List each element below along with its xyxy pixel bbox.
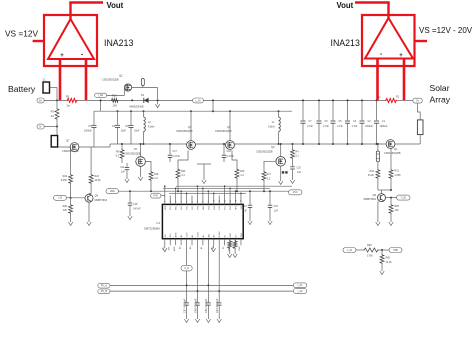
svg-text:I_B: I_B xyxy=(58,197,62,200)
svg-text:2w: 2w xyxy=(51,114,54,118)
svg-text:6.8uH: 6.8uH xyxy=(148,126,155,129)
svg-text:I_B2: I_B2 xyxy=(98,94,104,97)
svg-text:10uF: 10uF xyxy=(134,130,140,133)
svg-text:4.7uF: 4.7uF xyxy=(337,126,343,128)
svg-text:Array: Array xyxy=(430,95,451,105)
svg-text:MMSZ5245B: MMSZ5245B xyxy=(130,106,144,109)
svg-text:1000uF: 1000uF xyxy=(365,126,373,128)
svg-text:C44 4700pF: C44 4700pF xyxy=(215,298,219,313)
svg-text:R21: R21 xyxy=(395,169,400,172)
svg-text:Battery: Battery xyxy=(8,84,36,94)
svg-text:+: + xyxy=(399,53,403,59)
svg-text:AVIN: AVIN xyxy=(175,232,178,237)
svg-text:L_IN: L_IN xyxy=(347,249,352,252)
svg-text:4.7uF: 4.7uF xyxy=(323,126,329,128)
svg-text:R26: R26 xyxy=(63,205,68,208)
svg-text:Q1: Q1 xyxy=(394,147,398,151)
svg-text:+: + xyxy=(60,53,64,59)
svg-text:VS =12V - 20V: VS =12V - 20V xyxy=(419,26,473,35)
svg-text:INA213: INA213 xyxy=(104,38,133,48)
svg-text:4.7uF: 4.7uF xyxy=(307,126,313,128)
svg-text:C48 4700pF: C48 4700pF xyxy=(193,298,197,313)
svg-text:33.2K: 33.2K xyxy=(95,179,102,182)
svg-text:B-: B- xyxy=(39,125,42,128)
svg-text:I_A2: I_A2 xyxy=(297,290,303,293)
svg-text:U5: U5 xyxy=(134,147,138,151)
svg-text:10K: 10K xyxy=(395,209,400,212)
svg-text:Q2: Q2 xyxy=(227,125,231,129)
svg-text:R66: R66 xyxy=(367,244,372,247)
svg-text:0.47uF: 0.47uF xyxy=(133,207,141,210)
svg-text:C16: C16 xyxy=(227,150,232,153)
svg-text:2m: 2m xyxy=(377,96,380,99)
svg-text:SM72295MA: SM72295MA xyxy=(144,227,160,231)
svg-text:Vout: Vout xyxy=(107,1,124,10)
svg-text:IOUT: IOUT xyxy=(187,232,189,238)
svg-text:AVIN: AVIN xyxy=(173,246,176,251)
svg-text:C10: C10 xyxy=(297,167,302,170)
svg-text:1000uF: 1000uF xyxy=(380,126,388,128)
svg-text:R17: R17 xyxy=(267,173,272,176)
svg-text:R3: R3 xyxy=(51,110,55,114)
svg-text:PV_A: PV_A xyxy=(101,284,108,287)
svg-text:2.05K: 2.05K xyxy=(395,174,402,177)
svg-text:PV_B: PV_B xyxy=(101,290,108,293)
svg-text:5VB: 5VB xyxy=(393,249,398,252)
svg-text:R23: R23 xyxy=(370,170,375,173)
svg-text:L_IN: L_IN xyxy=(195,99,200,102)
svg-text:CSD19532Q5B: CSD19532Q5B xyxy=(124,153,141,156)
svg-text:C47 4700pF: C47 4700pF xyxy=(182,298,186,313)
svg-text:VS =12V: VS =12V xyxy=(5,29,38,39)
svg-text:CSD18502Q5B: CSD18502Q5B xyxy=(102,79,119,82)
svg-text:1uF: 1uF xyxy=(274,209,279,212)
svg-text:1000uF: 1000uF xyxy=(84,130,93,133)
svg-text:INA213: INA213 xyxy=(331,38,360,48)
svg-text:R24: R24 xyxy=(95,175,100,178)
svg-text:1uF: 1uF xyxy=(121,170,126,173)
svg-text:CSD18532Q5B: CSD18532Q5B xyxy=(176,130,193,133)
svg-text:Solar: Solar xyxy=(430,83,450,93)
svg-text:R65: R65 xyxy=(386,256,391,259)
svg-text:C15: C15 xyxy=(274,205,279,208)
svg-text:0.47uF: 0.47uF xyxy=(227,155,235,158)
svg-text:13.3K: 13.3K xyxy=(386,261,393,264)
svg-text:2m: 2m xyxy=(67,105,70,108)
svg-text:R22: R22 xyxy=(63,175,68,178)
svg-text:2.05K: 2.05K xyxy=(61,179,68,182)
svg-text:33.2K: 33.2K xyxy=(368,174,375,177)
svg-text:Q7: Q7 xyxy=(66,139,70,143)
svg-text:R25: R25 xyxy=(395,205,400,208)
svg-text:VDD: VDD xyxy=(110,190,115,193)
svg-text:VOUT: VOUT xyxy=(197,231,199,237)
svg-text:1uF: 1uF xyxy=(243,209,248,212)
svg-text:10K: 10K xyxy=(113,104,118,107)
svg-text:VCC: VCC xyxy=(293,191,298,194)
svg-text:CSD18532Q5B: CSD18532Q5B xyxy=(215,130,232,133)
svg-text:CSD18502Q5B: CSD18502Q5B xyxy=(384,152,401,155)
svg-text:R16: R16 xyxy=(240,170,245,173)
svg-text:Q2: Q2 xyxy=(119,74,123,78)
svg-text:6.8uH: 6.8uH xyxy=(268,126,275,129)
svg-text:10K: 10K xyxy=(63,209,68,212)
svg-text:PV5: PV5 xyxy=(153,194,158,197)
svg-text:1uF: 1uF xyxy=(297,171,302,174)
svg-text:0.47uF: 0.47uF xyxy=(173,155,181,158)
svg-text:4.7uF: 4.7uF xyxy=(352,126,358,128)
svg-text:DGND: DGND xyxy=(219,231,221,237)
svg-text:R10: R10 xyxy=(112,95,117,98)
svg-text:C17: C17 xyxy=(173,150,178,153)
svg-text:MMBT3904: MMBT3904 xyxy=(95,199,108,202)
svg-text:R18: R18 xyxy=(154,173,159,176)
svg-text:C14: C14 xyxy=(242,205,247,208)
svg-text:VCC: VCC xyxy=(225,205,227,210)
svg-text:U1: U1 xyxy=(156,221,160,225)
svg-text:Q4: Q4 xyxy=(188,125,192,129)
svg-text:Q9: Q9 xyxy=(95,193,99,197)
svg-text:VSS: VSS xyxy=(197,205,199,210)
svg-text:Q3: Q3 xyxy=(271,145,275,149)
svg-text:C18: C18 xyxy=(133,203,138,206)
svg-text:CSD18532Q5B: CSD18532Q5B xyxy=(256,151,273,154)
svg-text:170K: 170K xyxy=(367,255,373,258)
svg-text:MMBT3904: MMBT3904 xyxy=(364,198,377,201)
svg-text:A_D: A_D xyxy=(184,267,189,270)
svg-text:C45 4700pF: C45 4700pF xyxy=(204,298,208,313)
svg-text:VDS: VDS xyxy=(165,205,167,210)
svg-text:10uF: 10uF xyxy=(121,130,127,133)
svg-text:C11: C11 xyxy=(120,166,125,169)
svg-text:I_A1: I_A1 xyxy=(297,284,303,287)
svg-text:R20: R20 xyxy=(181,170,186,173)
svg-text:Vout: Vout xyxy=(337,1,354,10)
svg-text:Q8: Q8 xyxy=(373,193,377,197)
svg-text:T_2K: T_2K xyxy=(400,196,406,199)
